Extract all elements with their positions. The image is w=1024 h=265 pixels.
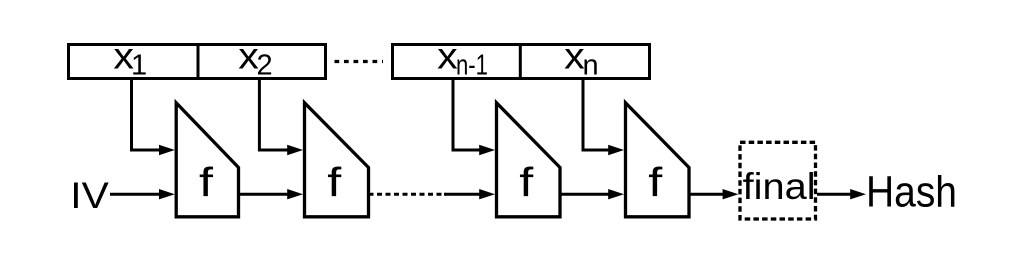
compression block f3 [497,103,561,217]
label xn [564,36,599,82]
svg-text:f: f [648,159,663,205]
wire IV into f1 [110,189,175,199]
message block group 1 (x1|x2) [69,43,326,80]
svg-text:n: n [583,49,599,81]
svg-text:Hash: Hash [866,169,957,217]
wire final box to Hash [817,189,866,199]
wire f3 to f4 [560,189,624,199]
message block group 2 (xn-1|xn) [393,43,650,80]
svg-text:IV: IV [70,174,109,216]
wire f1 to f2 [239,189,304,199]
label x1 [113,36,147,82]
svg-text:1: 1 [131,49,147,81]
wire from x2 down into f2 [259,79,303,156]
ellipsis dots between message groups [335,60,384,63]
svg-text:2: 2 [257,49,273,81]
label x2 [238,36,272,82]
compression block f1 [176,103,238,217]
wire from xn-1 down into f3 [453,79,495,156]
compression block f2 [305,103,369,217]
svg-text:f: f [199,159,214,205]
svg-text:final: final [743,166,816,207]
wire f4 to final box [689,189,738,199]
wire from xn down into f4 [583,79,624,156]
finalisation box (dashed) [740,142,816,219]
svg-text:f: f [327,159,342,205]
compression block f4 [626,103,690,217]
wire from x1 down into f1 [132,79,175,156]
svg-text:n-1: n-1 [456,49,488,81]
dashed wire f2 to f3 [369,189,496,199]
label xn-1 [437,36,488,82]
svg-text:f: f [519,159,534,205]
